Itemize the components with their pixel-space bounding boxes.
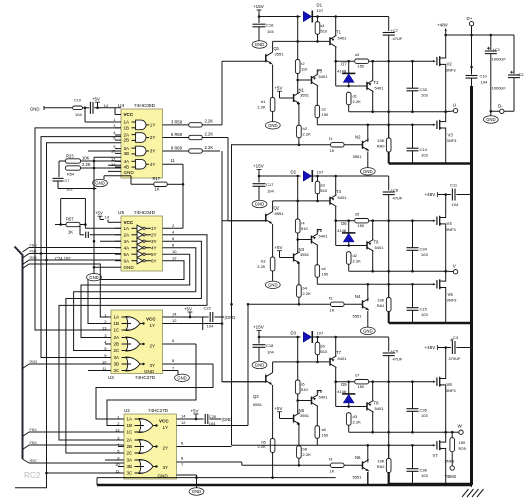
svg-text:GND: GND <box>363 329 372 334</box>
resistor b5 2.2K emitter load <box>272 385 274 439</box>
terminal YBM2 <box>450 466 454 470</box>
MOSFET V7 low side <box>433 444 436 446</box>
svg-text:C33: C33 <box>420 87 428 92</box>
transistor T5 PNP small <box>298 239 312 241</box>
svg-text:VCC: VCC <box>146 317 156 322</box>
svg-text:+C7: +C7 <box>391 28 399 33</box>
wire U5 pin5 row <box>100 240 121 242</box>
svg-text:5401: 5401 <box>338 36 348 41</box>
gate line lower stage 1 <box>317 124 433 126</box>
svg-text:47UF: 47UF <box>393 36 403 41</box>
svg-text:GND: GND <box>255 202 264 207</box>
svg-text:10: 10 <box>172 249 177 254</box>
wire U4 pin9 from bus <box>88 150 121 152</box>
svg-text:b2: b2 <box>303 126 308 131</box>
transistor T7 PNP <box>329 358 331 366</box>
harness entry FB0 <box>23 248 30 253</box>
svg-text:150: 150 <box>322 272 329 277</box>
svg-text:RC2: RC2 <box>24 471 41 480</box>
svg-text:C14: C14 <box>420 147 428 152</box>
wire U2 pin6 output <box>177 446 232 448</box>
svg-text:2Y: 2Y <box>150 135 156 140</box>
svg-text:1C: 1C <box>127 430 134 435</box>
svg-text:RA2: RA2 <box>377 464 386 469</box>
svg-text:U5: U5 <box>118 210 124 216</box>
svg-text:2Y: 2Y <box>150 344 156 349</box>
svg-text:3B: 3B <box>124 151 130 156</box>
wire Q collector node stage 1 <box>273 40 330 42</box>
svg-text:V2: V2 <box>447 62 453 67</box>
svg-text:104: 104 <box>267 189 274 194</box>
svg-text:+48V: +48V <box>437 23 449 28</box>
transistor N2 NPN driver <box>362 141 364 149</box>
svg-text:14: 14 <box>104 103 109 108</box>
capacitor C24 102 <box>80 234 84 236</box>
svg-text:1000UF: 1000UF <box>492 57 507 62</box>
svg-text:+15V: +15V <box>253 4 265 9</box>
svg-text:+48V: +48V <box>425 345 437 350</box>
diode D3 blue <box>303 332 311 342</box>
svg-text:Q3: Q3 <box>253 394 259 399</box>
svg-text:Q1: Q1 <box>274 46 280 51</box>
svg-text:N2: N2 <box>355 135 361 140</box>
ground below b1 <box>265 122 280 129</box>
svg-text:3551: 3551 <box>275 52 285 57</box>
IC U4 74HC08D quad AND gate <box>121 109 163 178</box>
capacitor C15 103 lower <box>407 307 419 309</box>
svg-text:C11: C11 <box>450 183 458 188</box>
svg-text:4A: 4A <box>124 159 131 164</box>
wire Q collector node stage 2 <box>273 200 330 202</box>
transistor Q1 NPN <box>265 54 267 62</box>
svg-text:1A: 1A <box>127 417 134 422</box>
svg-text:4Y: 4Y <box>150 162 156 167</box>
svg-text:C3: C3 <box>453 335 459 340</box>
zener diode D9 blue vertical <box>348 382 350 394</box>
resistor RA1 10K <box>388 284 390 297</box>
svg-text:2.2K: 2.2K <box>258 444 267 449</box>
capacitor C2 1000UF electrolytic <box>513 35 515 74</box>
svg-text:1Y: 1Y <box>151 226 157 231</box>
svg-text:3551: 3551 <box>300 252 310 257</box>
gate symbols U2 <box>139 419 153 433</box>
svg-text:1C: 1C <box>114 328 121 333</box>
svg-text:VCC: VCC <box>124 112 134 117</box>
phase output line stage 3 <box>349 431 446 433</box>
harness entry RB7 <box>23 459 30 463</box>
svg-text:D+: D+ <box>467 16 473 21</box>
svg-text:10K: 10K <box>377 298 384 303</box>
wire U5 pin12 output nested route <box>88 261 184 324</box>
svg-text:107: 107 <box>317 170 324 175</box>
MOSFET V4 high side <box>433 219 436 221</box>
svg-text:8 R60: 8 R60 <box>171 146 183 151</box>
capacitor C36 103 lower <box>407 468 419 470</box>
wire U3 pin6 output to U2 1B <box>163 343 197 345</box>
svg-text:+C1: +C1 <box>493 47 501 52</box>
svg-text:RB1: RB1 <box>30 255 38 260</box>
svg-text:GND: GND <box>124 265 135 270</box>
svg-text:VCC: VCC <box>159 419 169 424</box>
svg-text:C34: C34 <box>420 247 428 252</box>
svg-text:D7: D7 <box>341 62 347 67</box>
svg-text:D1: D1 <box>317 2 323 7</box>
svg-text:510: 510 <box>301 226 308 231</box>
resistor b2 2.2K below N1 <box>297 125 302 138</box>
resistor s5 150 horizontal <box>355 219 369 223</box>
svg-text:5551: 5551 <box>353 474 363 479</box>
svg-text:C35: C35 <box>420 408 428 413</box>
resistor r4 pullup <box>297 176 299 219</box>
svg-text:150: 150 <box>358 384 365 389</box>
zener diode D7 blue vertical <box>348 61 350 73</box>
bottom wire upper <box>97 477 336 479</box>
svg-text:510: 510 <box>321 349 328 354</box>
svg-text:2.2K: 2.2K <box>257 105 266 110</box>
svg-text:R23: R23 <box>66 154 74 159</box>
diode D1 blue <box>303 11 311 21</box>
svg-text:2B: 2B <box>124 138 130 143</box>
svg-text:+48V: +48V <box>425 192 437 197</box>
wire R60 / U3 pin12 to Q3 base <box>222 151 266 382</box>
svg-text:C17: C17 <box>266 182 274 187</box>
capacitor C8 47UF bootstrap <box>388 176 390 191</box>
ground below C18 <box>252 361 267 368</box>
MOSFET V6 high side <box>433 380 436 382</box>
resistor r2 pullup <box>297 17 299 60</box>
resistor R17 1K below U4 <box>154 182 168 186</box>
bus wire from U4 2B <box>15 143 121 488</box>
svg-text:3B: 3B <box>127 464 133 469</box>
svg-text:+5V: +5V <box>275 406 283 411</box>
svg-text:GND: GND <box>124 170 135 175</box>
svg-text:D9: D9 <box>341 382 347 387</box>
wire U4 pin11 output loop <box>163 163 184 165</box>
capacitor C10 104 <box>471 35 473 75</box>
svg-text:3NF3: 3NF3 <box>447 298 458 303</box>
svg-text:+15V: +15V <box>253 325 265 330</box>
ground of U4 <box>104 175 121 177</box>
svg-text:110: 110 <box>301 67 308 72</box>
svg-text:T8: T8 <box>374 401 380 406</box>
svg-text:(GND: (GND <box>222 417 233 422</box>
svg-text:T6: T6 <box>374 240 380 245</box>
+15V rail stage 1 <box>259 16 301 18</box>
transistor Q3 NPN <box>265 375 267 383</box>
svg-text:V7: V7 <box>433 453 439 458</box>
svg-text:5401: 5401 <box>375 86 385 91</box>
svg-text:U2: U2 <box>124 408 130 413</box>
svg-text:5401: 5401 <box>319 234 329 239</box>
+15V rail stage 3 <box>259 336 301 338</box>
junction dots harness <box>40 252 43 255</box>
zener diode D6 blue vertical <box>348 221 350 233</box>
transistor N5 NPN <box>293 415 295 423</box>
svg-text:3 R58: 3 R58 <box>171 119 183 124</box>
svg-text:+15V: +15V <box>253 164 265 169</box>
wire node line y86 stage 1 <box>336 85 367 87</box>
svg-text:2C: 2C <box>127 451 134 456</box>
wire f3 from U2 pin8 <box>242 464 331 466</box>
svg-text:2.2K: 2.2K <box>303 132 312 137</box>
svg-text:C18: C18 <box>266 343 274 348</box>
svg-text:11: 11 <box>171 158 176 163</box>
resistor b6 2.2K below N5 <box>297 446 302 459</box>
svg-text:GND: GND <box>89 275 98 280</box>
ground of U3 <box>163 370 179 372</box>
svg-text:510: 510 <box>321 188 328 193</box>
svg-text:74HC08D: 74HC08D <box>134 103 156 109</box>
svg-text:12: 12 <box>181 420 186 425</box>
svg-text:C36: C36 <box>420 468 428 473</box>
transistor N1 NPN <box>293 94 295 102</box>
ground of U5 <box>94 266 121 268</box>
wire U3 pin12 output <box>163 323 223 325</box>
svg-text:3551: 3551 <box>300 413 310 418</box>
transistor T4 PNP <box>329 197 331 205</box>
svg-text:74HC27D: 74HC27D <box>148 408 169 413</box>
svg-text:3B: 3B <box>114 362 120 367</box>
svg-text:3Y: 3Y <box>163 465 169 470</box>
svg-text:5401: 5401 <box>375 245 385 250</box>
IC U2 74HC27D triple 3-input NOR gate <box>124 414 177 479</box>
svg-text:U: U <box>453 103 456 108</box>
svg-text:1B: 1B <box>124 125 130 130</box>
svg-text:(GND: (GND <box>225 315 236 320</box>
svg-text:N4: N4 <box>355 294 361 299</box>
wire U5 pin6 output nested route <box>66 241 202 453</box>
svg-text:2.2K: 2.2K <box>303 291 312 296</box>
svg-text:GND: GND <box>192 489 201 494</box>
svg-text:3NF3: 3NF3 <box>447 138 458 143</box>
svg-text:3NF3: 3NF3 <box>446 227 457 232</box>
resistor s2 150 <box>315 105 320 118</box>
wire R59 output to Q2 base <box>228 138 266 221</box>
svg-text:10K: 10K <box>82 156 90 161</box>
wire RA2 to ground bus <box>388 473 390 486</box>
svg-text:5551: 5551 <box>353 313 363 318</box>
svg-text:2.2K: 2.2K <box>205 145 214 150</box>
resistor b4 2.2K below N3 <box>297 285 302 298</box>
resistor f1 1K base <box>331 143 345 147</box>
svg-text:T9: T9 <box>317 389 323 394</box>
svg-text:12: 12 <box>172 256 177 261</box>
resistor s3 510 <box>315 181 320 194</box>
svg-text:R57: R57 <box>66 217 74 222</box>
MOSFET V5 low side <box>433 283 436 285</box>
svg-text:FB5: FB5 <box>30 440 38 445</box>
wire U4 pin3 output / resistor R58 2.2K <box>163 124 190 126</box>
svg-text:104: 104 <box>207 324 214 329</box>
svg-text:150: 150 <box>322 112 329 117</box>
bus wire from U4 1B <box>35 128 121 330</box>
phase output line stage 2 <box>349 270 446 272</box>
terminal W phase output <box>446 431 459 433</box>
gate line upper stage 1 <box>336 60 354 62</box>
power +5V with capacitor C20 104 for U2 <box>177 418 197 420</box>
resistor RA2 10K <box>388 445 390 458</box>
interconnect vertical f2 <box>247 303 250 306</box>
svg-text:+5V: +5V <box>184 306 192 311</box>
svg-text:3A: 3A <box>124 239 131 244</box>
transistor T8 PNP <box>366 402 368 410</box>
gate line upper stage 3 <box>336 381 354 383</box>
svg-text:1K: 1K <box>155 187 160 192</box>
svg-text:1B: 1B <box>127 423 133 428</box>
svg-text:107: 107 <box>317 331 324 336</box>
harness entry PB1 <box>23 254 30 259</box>
svg-text:V5: V5 <box>448 292 454 297</box>
svg-text:2B: 2B <box>127 444 133 449</box>
thick bus segment stage 1 <box>389 162 472 164</box>
thick bus segment stage 3 <box>389 483 472 485</box>
svg-text:14: 14 <box>105 215 110 220</box>
svg-text:2C: 2C <box>114 348 121 353</box>
svg-text:2Y: 2Y <box>151 232 157 237</box>
svg-text:b3: b3 <box>261 259 266 264</box>
svg-text:470UF: 470UF <box>449 356 462 361</box>
resistor RA0 10K <box>388 125 390 138</box>
gate line lower stage 3 <box>317 444 433 446</box>
capacitor C16 104 bypass <box>258 17 260 24</box>
svg-text:RB7: RB7 <box>30 458 38 463</box>
wire N6 emitter to ground bus <box>367 472 369 485</box>
svg-text:GND: GND <box>30 107 39 112</box>
svg-text:47UF: 47UF <box>393 357 403 362</box>
transistor T2 PNP <box>366 82 368 90</box>
svg-text:W: W <box>458 424 463 429</box>
resistor r6 pullup <box>297 337 299 380</box>
ground below N2 <box>367 152 369 168</box>
svg-text:D-: D- <box>498 104 503 109</box>
svg-text:103: 103 <box>421 252 428 257</box>
svg-text:104: 104 <box>481 80 488 85</box>
svg-text:2Y: 2Y <box>163 446 169 451</box>
svg-text:150: 150 <box>358 223 365 228</box>
svg-text:3NF3: 3NF3 <box>446 388 457 393</box>
svg-text:FB0: FB0 <box>30 242 38 247</box>
svg-text:4148: 4148 <box>337 68 346 73</box>
+15V rail stage 2 <box>259 175 301 177</box>
ground below b3 <box>265 281 280 288</box>
svg-text:+C2: +C2 <box>516 72 524 77</box>
svg-text:RB3: RB3 <box>30 359 38 364</box>
resistor f2 1K base <box>331 302 345 306</box>
svg-text:D6: D6 <box>341 221 347 226</box>
transistor T6 PNP <box>366 241 368 249</box>
capacitor C21 102 <box>53 177 64 179</box>
resistor d2 2.2K <box>346 252 351 265</box>
svg-text:14: 14 <box>172 311 177 316</box>
svg-text:5401: 5401 <box>319 74 329 79</box>
wire U2 pin12 output <box>177 425 249 427</box>
capacitor C1 1000UF electrolytic <box>490 35 492 50</box>
svg-text:1K: 1K <box>330 469 335 474</box>
svg-text:C16: C16 <box>266 23 274 28</box>
transistor N6 NPN driver <box>362 461 364 469</box>
wire node line y86 stage 2 <box>336 245 367 247</box>
gate symbols U3 <box>126 317 140 331</box>
wire R58 output to Q1 base <box>221 61 223 125</box>
svg-text:10K: 10K <box>377 138 384 143</box>
svg-text:D3: D3 <box>291 331 297 336</box>
svg-text:V4: V4 <box>447 221 453 226</box>
svg-text:104: 104 <box>75 112 82 117</box>
wire U5 pin2 output <box>163 227 184 229</box>
svg-text:1Y: 1Y <box>150 123 156 128</box>
svg-text:5401: 5401 <box>375 406 385 411</box>
svg-text:2.2K: 2.2K <box>353 420 362 425</box>
resistor R57 1K <box>55 224 66 226</box>
ground below N4 <box>367 311 369 327</box>
bus wire from U4 2A <box>41 137 121 358</box>
svg-text:103: 103 <box>421 413 428 418</box>
resistor s3 150 horizontal <box>355 59 369 63</box>
svg-text:YBM2: YBM2 <box>445 474 457 479</box>
transistor Q2 NPN <box>265 214 267 222</box>
svg-text:2.2K: 2.2K <box>257 264 266 269</box>
wire U4 1A from +5V rail <box>84 108 86 122</box>
capacitor C35 103 upper <box>407 408 419 410</box>
resistor d1 2.2K <box>346 92 351 105</box>
harness entry FB5 <box>23 445 30 450</box>
svg-text:d3: d3 <box>353 414 358 419</box>
harness entry FB4 <box>23 432 30 437</box>
interconnect vertical to f1/f-gate lines <box>231 144 233 445</box>
thick bus vertical <box>470 86 473 485</box>
svg-text:12: 12 <box>172 318 177 323</box>
svg-text:3Y: 3Y <box>151 239 157 244</box>
svg-text:150: 150 <box>322 433 329 438</box>
svg-text:T3: T3 <box>317 69 323 74</box>
svg-text:2.2K: 2.2K <box>205 119 214 124</box>
svg-text:3A: 3A <box>127 458 134 463</box>
svg-text:GND: GND <box>363 169 372 174</box>
svg-text:1000UF: 1000UF <box>492 86 507 91</box>
svg-text:T2: T2 <box>374 80 380 85</box>
IC U5 74HC04D hex inverter <box>121 216 163 271</box>
svg-text:GND: GND <box>268 123 277 128</box>
svg-text:b4: b4 <box>303 286 308 291</box>
earth ground symbol bottom right <box>471 485 473 487</box>
harness entry RB3 <box>23 364 30 369</box>
svg-text:6 R59: 6 R59 <box>171 132 183 137</box>
svg-text:1B: 1B <box>114 321 120 326</box>
DC bus rail stage1 <box>446 34 514 36</box>
svg-text:GND: GND <box>144 369 155 374</box>
svg-text:RA1: RA1 <box>377 303 386 308</box>
ground below C16 <box>252 41 267 48</box>
svg-text:3NF3: 3NF3 <box>445 459 456 464</box>
svg-text:V6: V6 <box>447 382 453 387</box>
MOSFET V2 high side <box>433 60 436 62</box>
terminal U phase output <box>446 110 454 113</box>
svg-text:GND: GND <box>255 42 264 47</box>
svg-text:C22: C22 <box>204 306 212 311</box>
resistor b3 2.2K emitter load <box>272 224 274 257</box>
svg-text:T5: T5 <box>317 228 323 233</box>
svg-text:C20: C20 <box>209 414 217 419</box>
svg-text:C7: C7 <box>65 179 70 183</box>
svg-text:5551: 5551 <box>275 211 285 216</box>
svg-text:10K: 10K <box>377 459 384 464</box>
svg-text:2.2K: 2.2K <box>205 131 214 136</box>
svg-text:3C: 3C <box>127 471 134 476</box>
svg-text:2.2K: 2.2K <box>303 452 312 457</box>
capacitor C18 104 bypass <box>258 337 260 344</box>
capacitor C14 103 lower <box>407 147 419 149</box>
phase output line stage 1 <box>349 111 446 113</box>
